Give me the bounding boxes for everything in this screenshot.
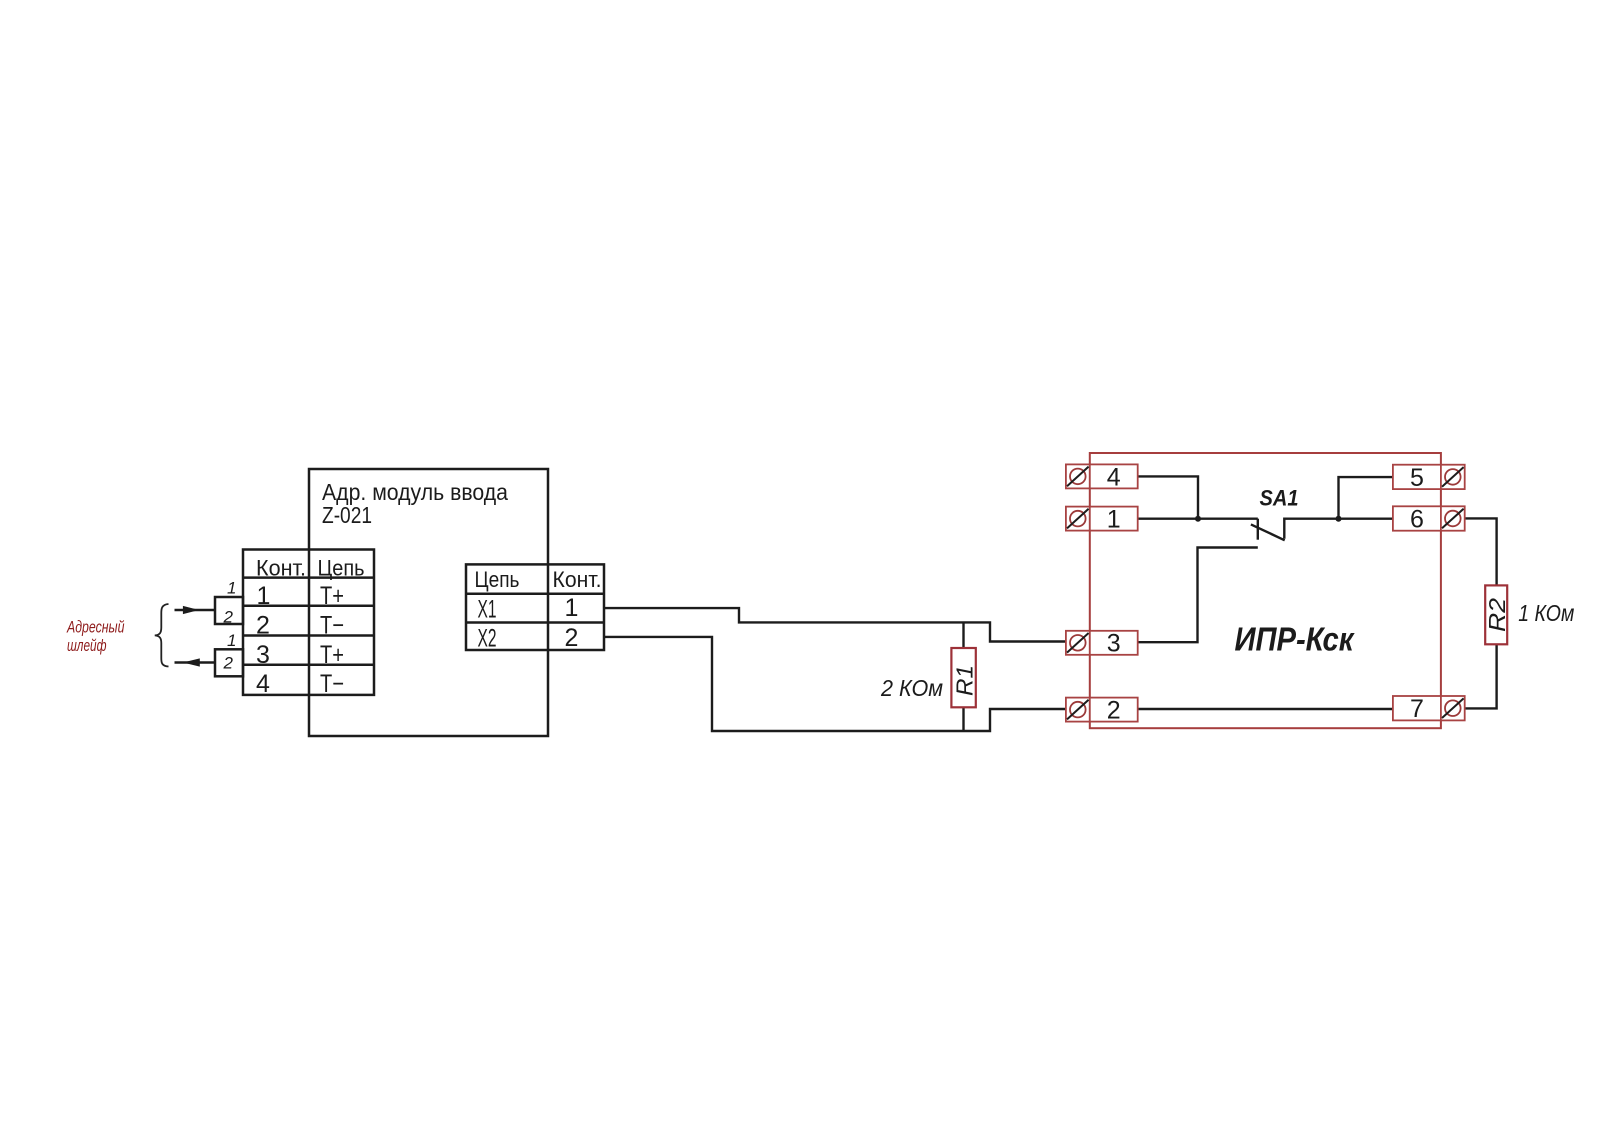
svg-text:Т+: Т+: [320, 641, 344, 669]
svg-text:1: 1: [227, 631, 236, 650]
svg-text:Конт.: Конт.: [256, 556, 306, 581]
svg-text:2: 2: [223, 654, 234, 673]
svg-text:3: 3: [1107, 630, 1121, 658]
svg-text:R2: R2: [1484, 598, 1510, 632]
svg-text:4: 4: [256, 670, 270, 698]
svg-text:2: 2: [223, 608, 234, 627]
svg-text:Т+: Т+: [320, 582, 344, 610]
svg-text:4: 4: [1107, 463, 1121, 491]
svg-text:2: 2: [1107, 697, 1121, 725]
svg-text:1: 1: [227, 579, 236, 598]
svg-text:X2: X2: [478, 625, 497, 653]
svg-text:2: 2: [256, 612, 270, 640]
svg-text:Цепь: Цепь: [475, 567, 520, 592]
svg-text:шлейф: шлейф: [67, 637, 107, 655]
svg-text:ИПР-Кск: ИПР-Кск: [1235, 621, 1356, 658]
svg-text:6: 6: [1410, 506, 1424, 534]
svg-text:Т−: Т−: [320, 612, 344, 640]
svg-text:SA1: SA1: [1260, 486, 1299, 511]
svg-text:1: 1: [565, 594, 579, 622]
svg-text:2 КОм: 2 КОм: [880, 675, 943, 701]
svg-text:1 КОм: 1 КОм: [1518, 600, 1574, 626]
svg-text:1: 1: [1107, 506, 1121, 534]
svg-text:7: 7: [1410, 695, 1424, 723]
svg-text:5: 5: [1410, 464, 1424, 492]
svg-text:Цепь: Цепь: [318, 556, 365, 581]
svg-text:X1: X1: [478, 596, 497, 624]
svg-text:Z-021: Z-021: [322, 502, 372, 528]
svg-text:Адресный: Адресный: [66, 619, 124, 637]
svg-text:Конт.: Конт.: [553, 567, 602, 592]
svg-text:2: 2: [565, 624, 579, 652]
svg-text:3: 3: [256, 641, 270, 669]
svg-text:Т−: Т−: [320, 670, 344, 698]
svg-text:1: 1: [257, 582, 271, 610]
svg-text:R1: R1: [952, 665, 978, 696]
